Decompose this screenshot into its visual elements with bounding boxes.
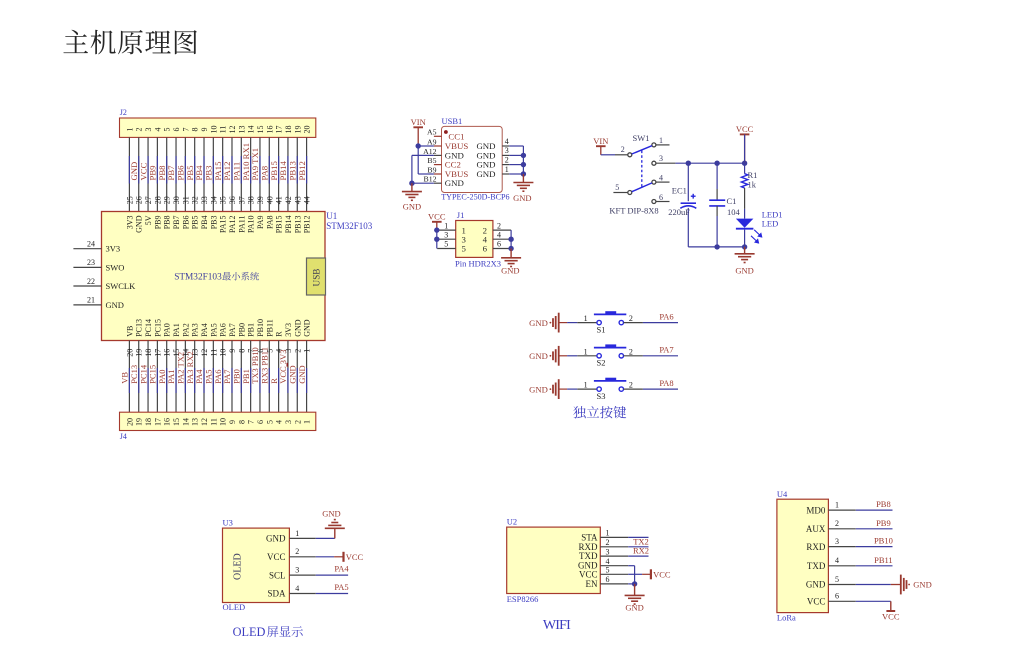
svg-text:OLED: OLED <box>233 625 266 639</box>
svg-text:27: 27 <box>144 196 153 204</box>
junction C1 top <box>714 161 719 166</box>
svg-text:VCC: VCC <box>346 552 364 562</box>
svg-text:18: 18 <box>144 349 153 357</box>
wire J2-13 to U1-37 net PA11 <box>232 137 247 211</box>
junction J1-1 <box>434 227 439 232</box>
junction C1 bottom <box>714 244 719 249</box>
svg-text:1k: 1k <box>748 180 757 190</box>
svg-text:4: 4 <box>659 173 663 182</box>
svg-text:VIN: VIN <box>411 117 426 127</box>
wire U1-20 to J4-20 net VB <box>120 341 135 413</box>
svg-text:6: 6 <box>606 575 610 584</box>
svg-text:J4: J4 <box>120 432 127 441</box>
svg-text:RXD: RXD <box>806 542 826 552</box>
svg-text:PA7: PA7 <box>659 345 673 355</box>
power port VCC below (bar down) <box>890 601 892 611</box>
svg-text:J1: J1 <box>457 210 465 220</box>
connector J1 Pin HDR2X3 <box>456 221 493 258</box>
svg-text:S2: S2 <box>597 358 606 368</box>
svg-text:VCC: VCC <box>653 569 671 579</box>
svg-text:EN: EN <box>586 579 598 589</box>
power port VIN at USB1 <box>413 126 423 128</box>
svg-text:24: 24 <box>87 240 95 249</box>
svg-text:PB8: PB8 <box>876 499 891 509</box>
svg-text:PC15: PC15 <box>153 319 162 337</box>
wire U1-3 to J4-3 net VCC 3V3 <box>278 341 293 413</box>
svg-text:GND: GND <box>806 580 826 590</box>
wire U2 pin1 STA <box>628 536 648 538</box>
svg-text:104: 104 <box>727 207 741 217</box>
svg-text:GND: GND <box>322 509 340 519</box>
svg-text:4: 4 <box>835 556 839 565</box>
svg-text:GND: GND <box>106 300 124 310</box>
connector J2 <box>120 118 316 137</box>
svg-text:31: 31 <box>181 196 190 204</box>
svg-text:2: 2 <box>621 145 625 154</box>
J1 pins 5/6 <box>437 248 456 250</box>
wire U1-9 to J4-9 net PA7 <box>222 341 237 413</box>
wire J2-9 to U1-33 net PB4 <box>194 137 209 211</box>
svg-text:5: 5 <box>462 244 467 254</box>
svg-text:1: 1 <box>584 347 588 356</box>
wire U2 pin5 VCC <box>628 573 642 575</box>
wire U1 pin 24 <box>73 248 101 250</box>
op-amp U1 STM32F103 minimal system box <box>102 212 326 341</box>
module U4 LoRa <box>777 499 829 612</box>
svg-text:11: 11 <box>209 418 218 426</box>
svg-text:2: 2 <box>293 420 302 424</box>
svg-text:3: 3 <box>606 547 610 556</box>
wire U1-18 to J4-18 net PC14 <box>138 341 153 413</box>
svg-text:CC1: CC1 <box>448 131 464 141</box>
wire J2-5 to U1-29 net PB8 <box>157 137 172 211</box>
junction GND wire <box>409 181 414 186</box>
power port VCC at J1 <box>432 221 442 223</box>
svg-text:6: 6 <box>172 128 181 132</box>
wire U1-17 to J4-17 net PC15 <box>148 341 163 413</box>
svg-text:14: 14 <box>181 418 190 426</box>
ground at USB1 right <box>522 174 524 183</box>
svg-text:STM32F103: STM32F103 <box>174 273 222 283</box>
USB1 right pin number 4 <box>502 145 509 147</box>
USB1 right pin number 2 <box>502 164 509 166</box>
svg-text:PA2: PA2 <box>181 323 190 337</box>
svg-text:1: 1 <box>303 349 312 353</box>
wire U1 pin 21 <box>73 304 101 306</box>
svg-text:MD0: MD0 <box>806 505 826 515</box>
svg-text:6: 6 <box>256 420 265 424</box>
wire VCC to J1 pins 1,3,5 <box>436 230 438 248</box>
LED arrows <box>751 230 762 243</box>
push button S3 <box>529 378 678 401</box>
svg-text:Pin HDR2X3: Pin HDR2X3 <box>455 258 501 268</box>
svg-text:PB12: PB12 <box>297 161 307 180</box>
svg-text:PB0: PB0 <box>237 323 246 337</box>
wires USB1 right side GND pins <box>509 145 523 147</box>
SW1 dashed link <box>641 151 643 187</box>
svg-text:9: 9 <box>200 128 209 132</box>
svg-text:5: 5 <box>444 240 448 249</box>
svg-text:7: 7 <box>247 420 256 424</box>
svg-text:5: 5 <box>615 183 619 192</box>
svg-text:PA4: PA4 <box>334 564 349 574</box>
wire U1-11 to J4-11 net PA5 <box>204 341 219 413</box>
SW1 lever 5-4 <box>632 183 652 192</box>
svg-text:6: 6 <box>497 240 501 249</box>
wire VIN to SW1 pin 2 <box>601 154 615 156</box>
svg-text:B9: B9 <box>427 165 436 174</box>
svg-text:U1: U1 <box>326 211 337 221</box>
svg-text:2: 2 <box>629 347 633 356</box>
svg-text:20: 20 <box>125 418 134 426</box>
USB1 pin A12 GND <box>434 154 442 156</box>
svg-text:GND: GND <box>735 265 753 275</box>
wire J2-19 to U1-43 net PB13 <box>287 137 302 211</box>
svg-text:10: 10 <box>209 126 218 134</box>
svg-text:PA15: PA15 <box>219 216 228 234</box>
svg-text:1: 1 <box>444 221 448 230</box>
svg-text:VCC: VCC <box>428 212 446 222</box>
svg-text:36: 36 <box>228 196 237 204</box>
svg-text:U3: U3 <box>223 518 233 528</box>
svg-text:VCC: VCC <box>807 597 826 607</box>
svg-text:B12: B12 <box>424 175 437 184</box>
svg-text:3: 3 <box>284 420 293 424</box>
wire U4 pin5 to ground <box>856 584 891 586</box>
USB1 right pin number 1 <box>502 173 509 175</box>
wire J2-17 to U1-41 net PB15 <box>269 137 284 211</box>
wire U1-6 to J4-6 net TX3 PB10 <box>250 341 265 413</box>
wire U3 pin1 to ground <box>316 537 335 539</box>
wire U2 pin3 RX2 <box>628 555 648 557</box>
svg-text:PA8: PA8 <box>659 378 673 388</box>
svg-text:GND: GND <box>529 384 548 394</box>
svg-text:2: 2 <box>293 349 302 353</box>
svg-text:STM32F103: STM32F103 <box>326 221 373 231</box>
svg-text:12: 12 <box>200 349 209 357</box>
junction J1-6 <box>508 246 513 251</box>
ground above U3 pin1 (flipped) <box>325 527 345 529</box>
svg-text:C1: C1 <box>727 196 737 206</box>
svg-text:A5: A5 <box>427 128 437 137</box>
svg-text:4: 4 <box>497 230 501 239</box>
wire bottom rail <box>688 246 744 248</box>
svg-text:PB9: PB9 <box>876 518 891 528</box>
svg-text:30: 30 <box>172 196 181 204</box>
svg-text:17: 17 <box>275 126 284 134</box>
svg-text:GND: GND <box>297 365 307 383</box>
svg-text:PC13: PC13 <box>135 319 144 337</box>
svg-text:GND: GND <box>513 193 531 203</box>
svg-text:13: 13 <box>237 126 246 134</box>
svg-text:GND: GND <box>445 178 464 188</box>
svg-text:7: 7 <box>181 128 190 132</box>
SW1 lever 2-1 <box>632 146 652 154</box>
svg-text:17: 17 <box>153 349 162 357</box>
svg-text:13: 13 <box>191 418 200 426</box>
svg-text:PA9: PA9 <box>256 216 265 230</box>
wire J2-12 to U1-36 net PA12 <box>222 137 237 211</box>
signal ground right of U4 <box>900 575 902 595</box>
svg-text:AUX: AUX <box>806 524 826 534</box>
svg-text:R: R <box>275 331 284 337</box>
connector J4 <box>120 412 316 430</box>
svg-text:PB11: PB11 <box>265 319 274 337</box>
capacitor C1 104 <box>716 163 718 189</box>
svg-text:4: 4 <box>505 137 509 146</box>
svg-text:35: 35 <box>219 196 228 204</box>
svg-text:USB1: USB1 <box>442 116 463 126</box>
ground below U2 <box>634 584 636 596</box>
svg-text:40: 40 <box>265 196 274 204</box>
USB1 pin A9 VBUS <box>434 145 442 147</box>
svg-text:28: 28 <box>153 196 162 204</box>
svg-text:12: 12 <box>228 126 237 134</box>
USB1 right pin number 3 <box>502 154 509 156</box>
svg-text:1: 1 <box>584 314 588 323</box>
wire U3 pin2 to VCC <box>316 556 334 558</box>
USB1 pin B9 VBUS <box>434 173 442 175</box>
wire J2-14 to U1-38 net PA10 RX1 <box>241 137 256 211</box>
svg-text:WIFI: WIFI <box>543 618 571 633</box>
small red mark on VCC 3V3 wire <box>286 363 288 367</box>
wire U1-1 to J4-1 net GND <box>297 341 312 413</box>
wire VIN to VBUS pins <box>418 145 434 147</box>
wire U1-12 to J4-12 net PA4 <box>194 341 209 413</box>
svg-text:18: 18 <box>284 126 293 134</box>
wire U2 pin2 TX2 <box>628 546 648 548</box>
wire U1-15 to J4-15 net PA1 <box>166 341 181 413</box>
power port VCC right <box>342 552 344 562</box>
svg-text:EC1: EC1 <box>672 186 687 196</box>
svg-text:3: 3 <box>835 537 839 546</box>
module U3 OLED <box>223 528 290 602</box>
svg-text:3: 3 <box>144 128 153 132</box>
svg-text:3V3: 3V3 <box>125 216 134 230</box>
wire U2 pin4 GND down <box>628 565 634 567</box>
svg-text:OLED: OLED <box>233 553 244 580</box>
USB1 pin B12 GND <box>434 182 442 184</box>
capacitor EC1 220uF <box>687 163 689 201</box>
wire U4 pin6 to VCC <box>856 600 891 602</box>
svg-text:R1: R1 <box>748 170 758 180</box>
svg-text:1: 1 <box>606 529 610 538</box>
svg-text:S3: S3 <box>597 391 606 401</box>
svg-text:14: 14 <box>247 126 256 134</box>
svg-text:10: 10 <box>219 418 228 426</box>
wire USB1 GND pins to ground <box>412 154 434 156</box>
svg-text:U4: U4 <box>777 489 788 499</box>
svg-text:PA11: PA11 <box>237 216 246 233</box>
wire U1-13 to J4-13 net PA3 RX2 <box>185 341 200 413</box>
svg-text:OLED: OLED <box>223 602 246 612</box>
svg-text:5V: 5V <box>144 215 153 225</box>
svg-text:9: 9 <box>228 420 237 424</box>
svg-text:1: 1 <box>584 381 588 390</box>
svg-text:34: 34 <box>209 196 218 204</box>
svg-text:16: 16 <box>163 418 172 426</box>
svg-text:2: 2 <box>505 155 509 164</box>
svg-text:GND: GND <box>303 319 312 337</box>
svg-text:VIN: VIN <box>593 136 608 146</box>
svg-text:PA0: PA0 <box>163 323 172 337</box>
svg-text:37: 37 <box>237 196 246 204</box>
junction J1-4 <box>508 237 513 242</box>
wire J2-15 to U1-39 net PA9 TX1 <box>250 137 265 211</box>
power port VCC above R1 <box>740 133 750 135</box>
svg-text:6: 6 <box>483 244 488 254</box>
junction EN/GND <box>632 581 637 586</box>
svg-text:5: 5 <box>163 128 172 132</box>
junctions right GND bus <box>521 153 526 158</box>
svg-text:20: 20 <box>125 349 134 357</box>
svg-text:LED: LED <box>762 219 779 229</box>
svg-text:39: 39 <box>256 196 265 204</box>
wire U1-16 to J4-16 net PA0 <box>157 341 172 413</box>
svg-text:9: 9 <box>228 349 237 353</box>
svg-text:PA6: PA6 <box>219 323 228 337</box>
connector USB1 TYPEC-250D-BCP6 <box>442 126 503 192</box>
wire J2-3 to U1-27 net VCC <box>138 137 153 211</box>
svg-text:3V3: 3V3 <box>284 323 293 337</box>
junction LED bottom <box>742 244 747 249</box>
svg-text:LoRa: LoRa <box>777 613 796 623</box>
svg-text:A9: A9 <box>427 137 437 146</box>
wire J2-20 to U1-44 net PB12 <box>297 137 312 211</box>
svg-text:SWO: SWO <box>106 262 125 272</box>
svg-text:1: 1 <box>303 420 312 424</box>
svg-text:PB3: PB3 <box>209 216 218 230</box>
svg-text:PA6: PA6 <box>659 311 673 321</box>
svg-text:PB12: PB12 <box>303 216 312 234</box>
svg-text:19: 19 <box>135 349 144 357</box>
wire J2-10 to U1-34 net PB3 <box>204 137 219 211</box>
svg-text:220uF: 220uF <box>668 207 690 217</box>
svg-text:2: 2 <box>295 547 299 556</box>
junction J1-3 <box>434 237 439 242</box>
wire U4 pin 1 net PB8 <box>856 509 893 511</box>
svg-text:43: 43 <box>293 196 302 204</box>
wire J2-1 to U1-25 <box>125 137 134 211</box>
svg-text:PB6: PB6 <box>181 216 190 230</box>
svg-text:VB: VB <box>125 326 134 337</box>
svg-text:GND: GND <box>529 318 548 328</box>
wire U1-4 to J4-4 net R <box>269 341 284 413</box>
svg-text:PB4: PB4 <box>200 216 209 230</box>
svg-text:15: 15 <box>256 126 265 134</box>
svg-text:PB15: PB15 <box>275 216 284 234</box>
svg-text:4: 4 <box>153 128 162 132</box>
svg-text:VCC: VCC <box>882 612 900 622</box>
svg-text:SDA: SDA <box>267 589 286 599</box>
svg-text:5: 5 <box>265 420 274 424</box>
svg-text:GND: GND <box>501 266 519 276</box>
svg-text:PB5: PB5 <box>191 216 200 230</box>
svg-text:1: 1 <box>505 165 509 174</box>
svg-text:42: 42 <box>284 196 293 204</box>
svg-text:GND: GND <box>913 579 931 589</box>
svg-text:PA10: PA10 <box>247 216 256 234</box>
svg-text:41: 41 <box>275 196 284 204</box>
svg-text:SW1: SW1 <box>633 133 650 143</box>
svg-text:8: 8 <box>237 420 246 424</box>
module U2 ESP8266 <box>507 527 601 593</box>
svg-text:23: 23 <box>87 258 95 267</box>
LED1 LED <box>736 219 754 228</box>
USB1 pin 1 marker dot <box>444 130 448 134</box>
svg-text:GND: GND <box>293 319 302 337</box>
wire U1-7 to J4-7 net PB1 <box>241 341 256 413</box>
junction EC1 top <box>686 161 691 166</box>
svg-text:PB9: PB9 <box>153 216 162 230</box>
svg-text:GND: GND <box>135 215 144 233</box>
svg-text:16: 16 <box>163 349 172 357</box>
svg-text:PB1: PB1 <box>247 323 256 337</box>
wire U1-19 to J4-19 net PC13 <box>129 341 144 413</box>
svg-text:5: 5 <box>835 575 839 584</box>
J1 pins 3/4 <box>437 238 456 240</box>
wire J2-18 to U1-42 net PB14 <box>278 137 293 211</box>
svg-text:ESP8266: ESP8266 <box>507 594 539 604</box>
USB tab on U1 <box>307 258 326 295</box>
svg-text:6: 6 <box>835 592 839 601</box>
wire SW1 pin3 to VCC rail <box>675 162 744 164</box>
svg-text:12: 12 <box>200 418 209 426</box>
USB1 pin B5 CC2 <box>434 164 442 166</box>
svg-text:PA5: PA5 <box>209 323 218 337</box>
svg-text:2: 2 <box>497 221 501 230</box>
svg-text:PB11: PB11 <box>874 555 893 565</box>
svg-text:PA4: PA4 <box>200 323 209 337</box>
svg-text:33: 33 <box>200 196 209 204</box>
wire J2-7 to U1-31 net PB6 <box>176 137 191 211</box>
svg-text:RX2: RX2 <box>633 546 649 556</box>
wire U4 pin 2 net PB9 <box>856 528 893 530</box>
wire U2 pin6 EN <box>628 583 634 585</box>
svg-text:PA12: PA12 <box>228 216 237 234</box>
svg-text:20: 20 <box>303 126 312 134</box>
wire U1-8 to J4-8 net PB0 <box>232 341 247 413</box>
wire U4 pin 3 net PB10 <box>856 546 893 548</box>
svg-text:U2: U2 <box>507 517 517 527</box>
wire U1-10 to J4-10 net PA6 <box>213 341 228 413</box>
svg-text:19: 19 <box>293 126 302 134</box>
svg-text:16: 16 <box>265 126 274 134</box>
svg-text:PA1: PA1 <box>172 323 181 337</box>
svg-text:GND: GND <box>266 534 286 544</box>
svg-text:1: 1 <box>125 128 134 132</box>
ground at USB1 left <box>411 183 413 191</box>
svg-text:PA8: PA8 <box>265 216 274 230</box>
caption 独立按键 <box>573 406 586 418</box>
svg-text:TXD: TXD <box>807 561 826 571</box>
svg-text:8: 8 <box>191 128 200 132</box>
svg-text:21: 21 <box>87 296 95 305</box>
ground below LED <box>744 247 746 254</box>
SW1 pin stubs and numbers <box>656 144 670 146</box>
wire U1 pin 22 <box>73 285 101 287</box>
svg-text:B5: B5 <box>427 156 436 165</box>
svg-text:5: 5 <box>606 566 610 575</box>
wire U1-5 to J4-5 net RX3 PB11 <box>259 341 274 413</box>
svg-text:PC14: PC14 <box>144 319 153 337</box>
svg-text:PA5: PA5 <box>334 582 348 592</box>
USB1 pin A5 CC1 <box>434 135 442 137</box>
svg-text:J2: J2 <box>120 108 127 117</box>
svg-text:PB13: PB13 <box>293 216 302 234</box>
svg-text:15: 15 <box>172 418 181 426</box>
wire J2-11 to U1-35 net PA15 <box>213 137 228 211</box>
